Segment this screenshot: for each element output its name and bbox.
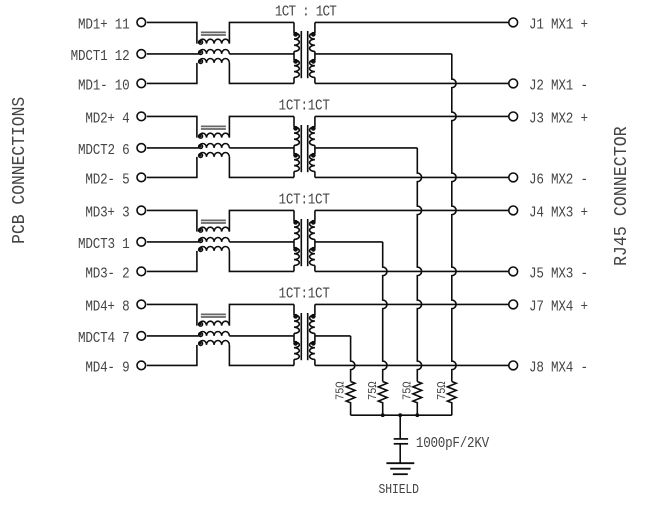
transformer T4 secondary winding	[314, 304, 316, 315]
wire choke to transformer T2 center	[229, 147, 294, 149]
transformer T4 primary polarity dots	[294, 315, 297, 318]
choke L2 winding A	[199, 133, 229, 137]
choke L4 winding A polarity dot	[199, 322, 203, 326]
pin terminal MDCT3	[137, 238, 146, 247]
wire T1 secondary center tap to node CT1	[315, 53, 452, 55]
choke L3 winding C polarity dot	[199, 248, 203, 252]
wire choke to transformer T1 bottom	[229, 63, 294, 84]
svg-text:MD1- 10: MD1- 10	[78, 79, 129, 95]
wire T1 secondary top to J1	[315, 21, 508, 23]
choke L2 winding B polarity dot	[199, 145, 203, 149]
choke L1 winding A	[199, 39, 229, 43]
choke L1 core bars	[201, 31, 226, 33]
wire node CT3 vertical drop with crossover hops	[383, 242, 387, 382]
svg-text:SHIELD: SHIELD	[378, 482, 418, 497]
svg-text:MD1+ 11: MD1+ 11	[78, 18, 129, 34]
choke L1 winding B polarity dot	[199, 51, 203, 55]
transformer T4 primary winding	[293, 304, 295, 315]
wire MDCT3 to choke	[147, 241, 199, 243]
resistor R3 75 ohm	[378, 382, 387, 416]
choke L3 winding B	[199, 237, 229, 241]
choke L4 winding B	[199, 332, 229, 336]
svg-text:MDCT3 1: MDCT3 1	[78, 237, 129, 253]
pin terminal MD3-	[137, 267, 146, 276]
resistor R1 75 ohm	[447, 382, 456, 416]
svg-text:MD2- 5: MD2- 5	[85, 173, 129, 189]
svg-text:1CT:1CT: 1CT:1CT	[279, 193, 330, 209]
choke L2 winding B	[199, 143, 229, 147]
svg-text:J6 MX2 -: J6 MX2 -	[529, 173, 588, 189]
choke L3 winding A	[199, 227, 229, 231]
wire MD1- to choke	[147, 63, 197, 84]
svg-text:1CT : 1CT: 1CT : 1CT	[275, 5, 337, 21]
pin terminal MDCT2	[137, 144, 146, 153]
wire choke to transformer T4 top	[229, 304, 294, 325]
wire MDCT4 to choke	[147, 335, 199, 337]
choke L3 winding A polarity dot	[199, 228, 203, 232]
transformer T1 core	[300, 31, 302, 78]
transformer T2 primary polarity dots	[294, 127, 297, 130]
choke L1 winding A polarity dot	[199, 40, 203, 44]
transformer T1 secondary winding	[314, 22, 316, 33]
transformer T4 core	[300, 313, 302, 360]
svg-text:75Ω: 75Ω	[402, 381, 415, 400]
svg-text:75Ω: 75Ω	[367, 381, 380, 400]
svg-text:1000pF/2KV: 1000pF/2KV	[416, 435, 490, 452]
wire MD2+ to choke	[147, 116, 197, 137]
wire MDCT1 to choke	[147, 53, 199, 55]
choke L2 winding A polarity dot	[199, 134, 203, 138]
choke L3 winding C	[199, 246, 229, 250]
svg-text:1CT:1CT: 1CT:1CT	[279, 99, 330, 115]
svg-text:J2 MX1 -: J2 MX1 -	[529, 79, 588, 95]
pin terminal J5	[509, 267, 518, 276]
transformer T2 secondary polarity dots	[312, 127, 315, 130]
junction dot bus-capacitor	[398, 413, 402, 417]
svg-text:1CT:1CT: 1CT:1CT	[279, 287, 330, 303]
wire MDCT2 to choke	[147, 147, 199, 149]
transformer T3 primary polarity dots	[294, 221, 297, 224]
wire T2 secondary top to J3	[315, 115, 508, 117]
choke L4 winding B polarity dot	[199, 333, 203, 337]
pin terminal J6	[509, 173, 518, 182]
junction dot bus-R2	[415, 413, 419, 417]
wire MD4- to choke	[147, 345, 197, 366]
wire capacitor C1 to ground	[399, 444, 401, 463]
svg-text:MDCT2 6: MDCT2 6	[78, 143, 129, 159]
svg-text:MD3- 2: MD3- 2	[85, 267, 129, 283]
wire T3 secondary bottom to J5	[315, 270, 508, 272]
transformer T2 core	[300, 125, 302, 172]
transformer T3 secondary polarity dots	[312, 221, 315, 224]
wire node CT4 vertical drop with crossover hops	[351, 336, 355, 382]
wire choke to transformer T4 center	[229, 335, 294, 337]
pin terminal J7	[509, 300, 518, 309]
wire T3 secondary top to J4	[315, 209, 508, 211]
transformer T3 primary winding	[293, 210, 295, 221]
ground bus wire	[351, 414, 452, 416]
choke L1 winding C	[199, 59, 229, 63]
ground symbol SHIELD	[386, 463, 414, 474]
choke L2 winding C	[199, 152, 229, 156]
wire node CT2 vertical drop with crossover hops	[417, 148, 421, 382]
wire choke to transformer T2 bottom	[229, 157, 294, 178]
wire choke to transformer T3 bottom	[229, 251, 294, 272]
capacitor C1 1000pF/2KV	[394, 439, 408, 444]
wire choke to transformer T1 center	[229, 53, 294, 55]
wire T2 secondary center tap to node CT2	[315, 147, 417, 149]
pin terminal MDCT4	[137, 332, 146, 341]
pin terminal MD2+	[137, 112, 146, 121]
svg-text:J3 MX2 +: J3 MX2 +	[529, 112, 588, 128]
svg-text:75Ω: 75Ω	[436, 381, 449, 400]
wire T4 secondary center tap to node CT4	[315, 335, 351, 337]
pin terminal J2	[509, 79, 518, 88]
pin terminal MD3+	[137, 206, 146, 215]
svg-text:PCB CONNECTIONS: PCB CONNECTIONS	[10, 97, 30, 244]
transformer T3 secondary winding	[314, 210, 316, 221]
wire T4 secondary top to J7	[315, 303, 508, 305]
wire MD4+ to choke	[147, 304, 197, 325]
wire choke to transformer T3 top	[229, 210, 294, 231]
svg-text:RJ45 CONNECTOR: RJ45 CONNECTOR	[611, 126, 632, 266]
svg-text:J5 MX3 -: J5 MX3 -	[529, 267, 588, 283]
wire T4 secondary bottom to J8	[315, 364, 508, 366]
svg-text:MD3+ 3: MD3+ 3	[85, 206, 129, 222]
transformer T1 primary polarity dots	[294, 33, 297, 36]
junction dot bus-R3	[381, 413, 385, 417]
choke L4 winding C	[199, 341, 229, 345]
pin terminal MD4+	[137, 300, 146, 309]
svg-text:75Ω: 75Ω	[335, 381, 348, 400]
pin terminal MD2-	[137, 173, 146, 182]
wire choke to transformer T1 top	[229, 22, 294, 43]
svg-text:MD2+ 4: MD2+ 4	[85, 112, 129, 128]
choke L4 winding C polarity dot	[199, 342, 203, 346]
wire T1 secondary bottom to J2	[315, 82, 508, 84]
wire T2 secondary bottom to J6	[315, 176, 508, 178]
pin terminal J8	[509, 361, 518, 370]
pin terminal MD4-	[137, 361, 146, 370]
svg-text:J4 MX3 +: J4 MX3 +	[529, 206, 588, 222]
transformer T1 secondary polarity dots	[312, 33, 315, 36]
pin terminal MDCT1	[137, 50, 146, 59]
wire MD3- to choke	[147, 251, 197, 272]
pin terminal MD1-	[137, 79, 146, 88]
transformer T3 core	[300, 219, 302, 266]
choke L4 core bars	[201, 313, 226, 315]
choke L3 core bars	[201, 219, 226, 221]
choke L1 winding C polarity dot	[199, 60, 203, 64]
wire choke to transformer T4 bottom	[229, 345, 294, 366]
wire MD3+ to choke	[147, 210, 197, 231]
pin terminal J3	[509, 112, 518, 121]
svg-text:MD4+ 8: MD4+ 8	[85, 300, 129, 316]
svg-text:MDCT1 12: MDCT1 12	[71, 49, 130, 65]
wire node CT1 vertical drop with crossover hops	[452, 54, 456, 382]
wire MD1+ to choke	[147, 22, 197, 43]
pin terminal MD1+	[137, 18, 146, 27]
choke L4 winding A	[199, 321, 229, 325]
svg-text:J8 MX4 -: J8 MX4 -	[529, 361, 588, 377]
svg-text:MDCT4 7: MDCT4 7	[78, 331, 129, 347]
transformer T4 secondary polarity dots	[312, 315, 315, 318]
resistor R4 75 ohm	[346, 382, 355, 416]
choke L3 winding B polarity dot	[199, 239, 203, 243]
transformer T2 primary winding	[293, 116, 295, 127]
transformer T2 secondary winding	[314, 116, 316, 127]
choke L2 core bars	[201, 125, 226, 127]
wire choke to transformer T3 center	[229, 241, 294, 243]
choke L1 winding B	[199, 49, 229, 53]
svg-text:J7 MX4 +: J7 MX4 +	[529, 300, 588, 316]
wire MD2- to choke	[147, 157, 197, 178]
choke L2 winding C polarity dot	[199, 154, 203, 158]
transformer T1 primary winding	[293, 22, 295, 33]
svg-text:MD4- 9: MD4- 9	[85, 361, 129, 377]
resistor R2 75 ohm	[413, 382, 422, 416]
pin terminal J4	[509, 206, 518, 215]
wire bus to capacitor C1	[399, 415, 401, 438]
svg-text:J1 MX1 +: J1 MX1 +	[529, 18, 588, 34]
wire T3 secondary center tap to node CT3	[315, 241, 383, 243]
pin terminal J1	[509, 18, 518, 27]
wire choke to transformer T2 top	[229, 116, 294, 137]
